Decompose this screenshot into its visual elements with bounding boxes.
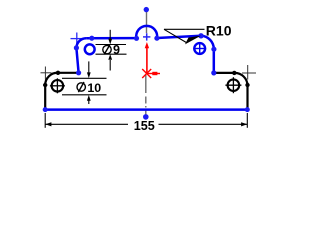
dimension R10 leader [164,29,205,42]
raised left fillet arc (blue) [76,38,86,48]
wire right riser (blue) [213,49,216,73]
svg-text:R10: R10 [206,22,232,38]
left outer fillet arc [45,73,58,85]
construction centerline [145,11,148,115]
wire left riser (blue) [76,48,78,73]
right outer fillet arc [234,73,247,86]
circle hole bottom-left with center mark (black) [50,78,65,93]
dimension D10 [62,61,107,104]
wire bottom edge (blue) [45,108,247,111]
circle hole D9 (blue) [85,44,95,54]
raised right fillet arc (blue) [201,36,214,49]
node virtual-sharp cross bottom-left [41,67,52,80]
wire top edge right (blue, slight slope) [157,36,201,38]
circle hole bottom-right with center mark (black) [225,77,241,93]
node virtual-sharp cross raised-left (blue) [71,33,84,46]
wire right step (black) [214,72,235,74]
svg-text:155: 155 [134,119,155,133]
svg-text:9: 9 [113,43,120,57]
arc center bump (blue, slightly more than semicircle) [136,26,157,38]
wire left step (black) [58,72,79,74]
wire right outer edge (black) [246,86,248,110]
bump arc center cross (blue) [143,33,150,40]
circle hole right raised with center mark (blue) [193,42,206,55]
sketch endpoint dots (blue) [43,7,250,120]
wire left outer edge (black) [44,85,46,110]
dimension D9 [96,30,127,71]
node virtual-sharp cross bottom-right [242,65,256,80]
origin [142,42,160,78]
dimension 155 [45,113,247,128]
sketch endpoint dots (black) [43,71,250,88]
wire top edge left (blue) [86,37,136,40]
svg-text:10: 10 [87,81,101,95]
